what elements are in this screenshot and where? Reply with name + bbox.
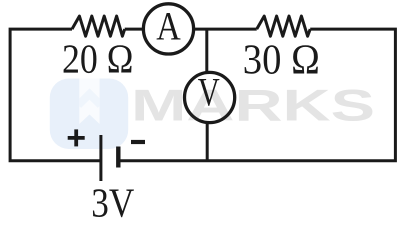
watermark logo square xyxy=(50,79,128,150)
svg-text:3V: 3V xyxy=(91,179,134,225)
wire voltmeter to bottom xyxy=(206,123,209,160)
resistor R1 20ohm zigzag xyxy=(72,16,125,36)
wire resistor R2 to right edge down to battery xyxy=(118,29,395,161)
voltmeter V1 circle xyxy=(185,72,235,122)
battery B1 long plate (+) xyxy=(99,135,102,181)
svg-text:20 Ω: 20 Ω xyxy=(62,36,134,82)
battery B1 short plate (-) xyxy=(116,147,120,168)
watermark logo chevron xyxy=(78,94,100,105)
resistor R2 30ohm zigzag xyxy=(257,16,311,36)
plus sign xyxy=(68,129,85,146)
wire resistor R1 to ammeter xyxy=(125,28,144,31)
svg-text:A: A xyxy=(156,4,181,49)
minus sign xyxy=(131,140,145,144)
svg-text:MARKS: MARKS xyxy=(131,82,375,131)
wire ammeter to resistor R2 xyxy=(194,28,257,31)
ammeter A1 circle xyxy=(143,4,193,54)
wire junction down to voltmeter xyxy=(205,29,208,72)
wire battery to left edge and up to resistor R1 xyxy=(10,29,101,161)
svg-text:V: V xyxy=(198,69,220,114)
svg-text:30 Ω: 30 Ω xyxy=(243,38,320,84)
